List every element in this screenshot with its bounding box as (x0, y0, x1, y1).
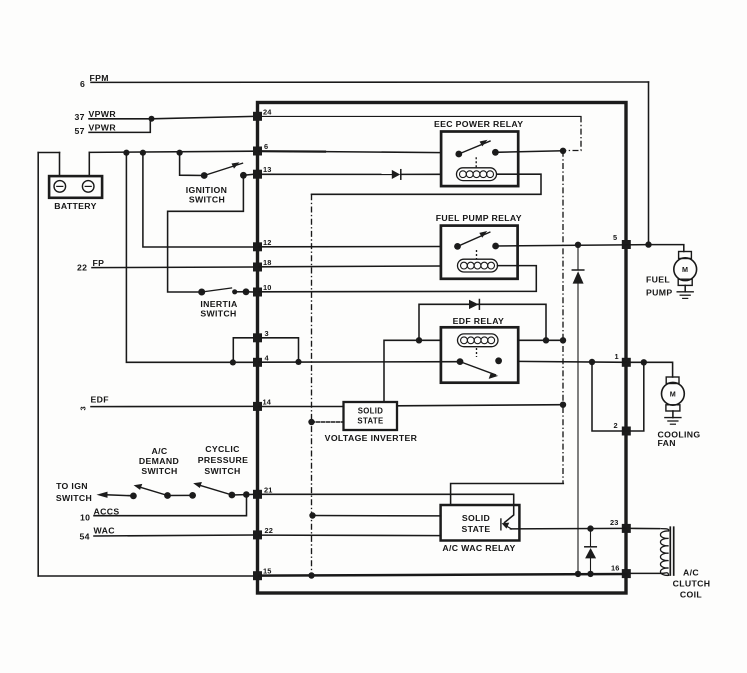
wire ACCS (94, 495, 247, 516)
junction VPWR merge (149, 116, 155, 122)
svg-text:BATTERY: BATTERY (54, 201, 97, 211)
wire WAC relay upper input (313, 515, 441, 517)
inertia switch (198, 288, 249, 319)
junction diode CR3 top on pin 23 wire (587, 525, 593, 531)
solid state voltage inverter U1 (325, 402, 418, 443)
wire pin 2 branch inside and outside (592, 362, 644, 431)
svg-text:23: 23 (610, 518, 619, 527)
wire pin 23 to A/C clutch coil (631, 527, 660, 529)
junction CR3 on ground bus (587, 571, 593, 577)
svg-text:4: 4 (265, 353, 270, 362)
wire EDF coil right to VPWR vertical (518, 339, 563, 341)
svg-text:13: 13 (263, 165, 272, 174)
svg-text:6: 6 (80, 79, 85, 89)
cooling fan motor M2 (658, 377, 701, 448)
wire VPWR to pin 24 (152, 116, 254, 118)
wire pin 21 to WAC relay drop (259, 494, 514, 522)
wire EEC relay output to junction (495, 151, 563, 153)
solid state A/C WAC relay U2 (441, 505, 520, 553)
wire battery positive feed to pin 6 (89, 151, 253, 152)
svg-text:COIL: COIL (680, 590, 702, 600)
junction WAC upper input on ground-return vertical (309, 512, 315, 518)
junction inverter right on VPWR vertical (560, 402, 566, 408)
svg-text:6: 6 (264, 142, 268, 151)
wire diode CR3 branch vertical (590, 529, 592, 547)
junction inverter input on ground-return vertical (308, 419, 314, 425)
junction fuel relay output to diode branch (575, 242, 581, 248)
wire ground bus to pin 15 (38, 575, 253, 577)
ECM main box (258, 103, 627, 594)
pin 16 (622, 569, 631, 578)
wire pin 1 to cooling fan (631, 362, 673, 377)
svg-text:STATE: STATE (357, 417, 383, 426)
ground fuel pump (677, 285, 693, 298)
svg-text:14: 14 (263, 397, 272, 406)
pin 23 (622, 524, 631, 533)
wire fuel pump relay output to pin 5 (496, 245, 649, 246)
pin 18 (253, 263, 262, 272)
svg-text:24: 24 (263, 107, 272, 116)
wire battery top feed left segment (38, 152, 59, 154)
a/c demand switch (130, 446, 179, 499)
wire to ign switch with arrow (106, 495, 133, 496)
svg-text:VOLTAGE INVERTER: VOLTAGE INVERTER (325, 433, 418, 443)
junction diode branch on ground bus (575, 571, 581, 577)
svg-text:FUEL: FUEL (646, 275, 670, 285)
svg-text:M: M (682, 265, 688, 274)
wire inverter right to VPWR vertical (397, 405, 563, 406)
wire pin 3 outside loop to pin 4 (233, 338, 253, 363)
svg-text:INERTIA: INERTIA (200, 299, 238, 309)
svg-text:10: 10 (80, 513, 90, 523)
svg-text:VPWR: VPWR (89, 109, 117, 119)
diode CR2 bypass loop over EDF coil (419, 300, 546, 341)
cyclic pressure switch (189, 444, 248, 499)
wire pin 6 to EEC relay contact (259, 150, 325, 153)
EDF relay (441, 316, 518, 383)
svg-text:FAN: FAN (658, 438, 676, 448)
svg-text:A/C WAC RELAY: A/C WAC RELAY (442, 543, 515, 553)
junction pin 2 branch on pin 1 wire (589, 359, 595, 365)
wire ground bus pin 15 to pin 16 (259, 574, 626, 576)
pin 10 (253, 288, 262, 297)
wire diode to EEC relay coil (401, 173, 441, 175)
wire EDF to pin 14 (91, 405, 253, 407)
pin 21 (253, 490, 262, 499)
junction pin3 loop on pin 4 wire (230, 359, 236, 365)
junction FPM tap (645, 241, 651, 247)
svg-text:FPM: FPM (90, 73, 109, 83)
svg-text:1: 1 (615, 352, 619, 361)
wire EDF coil left to inverter (384, 340, 441, 402)
pin 22 (253, 530, 262, 539)
svg-text:FUEL PUMP RELAY: FUEL PUMP RELAY (436, 213, 522, 223)
svg-text:5: 5 (613, 233, 617, 242)
wire inverter input (312, 421, 344, 423)
svg-text:TO IGN: TO IGN (56, 481, 88, 491)
svg-text:EEC POWER RELAY: EEC POWER RELAY (434, 119, 523, 129)
wire FP to pin 18 (92, 266, 253, 269)
diode CR1 EEC relay coil (392, 170, 401, 180)
junction battery feed to ignition switch branch (177, 150, 183, 156)
wire pin 24 to EEC relay output (VPWR) (262, 115, 581, 117)
svg-text:WAC: WAC (94, 526, 116, 536)
wire pin 5 to fuel pump (649, 245, 684, 252)
wire pin 12 feed vertical (143, 153, 253, 247)
svg-text:16: 16 (611, 563, 620, 572)
svg-text:10: 10 (263, 283, 272, 292)
wire fuel pump relay coil return to pin 10 (259, 266, 536, 292)
svg-text:3: 3 (79, 406, 88, 410)
junction battery feed to pin 4 branch (123, 150, 129, 156)
pin 5 (622, 240, 631, 249)
pin 13 (253, 170, 262, 179)
svg-text:DEMAND: DEMAND (139, 456, 179, 466)
wire battery positive terminal stub (88, 152, 90, 176)
pin 1 (622, 358, 631, 367)
junction battery feed to pin 12 branch (140, 150, 146, 156)
wire diode CR4 down to ground bus (577, 284, 579, 574)
svg-text:54: 54 (80, 532, 90, 542)
svg-text:57: 57 (75, 126, 85, 136)
wire pin 13 to diode CR1 (259, 173, 392, 175)
wire pin 14 to inverter (259, 406, 344, 408)
svg-text:SWITCH: SWITCH (141, 466, 177, 476)
wire between switches (168, 494, 193, 496)
wire FPM horizontal top (91, 81, 649, 83)
svg-text:VPWR: VPWR (89, 123, 117, 133)
svg-text:21: 21 (264, 485, 273, 494)
junction EEC relay output node (560, 148, 566, 154)
fuel pump motor M1 (646, 252, 697, 298)
wire VPWR distribution vertical (dash-dot) (562, 151, 564, 484)
svg-text:SOLID: SOLID (358, 407, 384, 416)
pin 24 (253, 112, 262, 121)
diode CR3 A/C clutch clamp (585, 547, 597, 559)
battery (49, 176, 102, 211)
pin 15 (253, 571, 262, 580)
wire VPWR pin 37 (89, 118, 152, 120)
junction ground-return vertical on ground bus (308, 572, 314, 578)
wire EEC relay coil return (312, 174, 542, 194)
wire ignition switch to pin 13 (243, 174, 253, 175)
wire pin 4 to EDF relay contact (259, 361, 460, 364)
svg-text:A/C: A/C (151, 446, 167, 456)
svg-text:SOLID: SOLID (462, 513, 490, 523)
wire pin 12 to fuel pump relay contact (259, 246, 441, 248)
wire ignition switch drop (180, 153, 205, 176)
svg-text:CYCLIC: CYCLIC (205, 444, 240, 454)
svg-text:ACCS: ACCS (94, 507, 120, 517)
wire fuel relay diode branch vertical (577, 245, 579, 270)
fuel pump relay (436, 213, 522, 279)
wire FPM drop to fuel pump feed (648, 82, 650, 245)
svg-text:18: 18 (263, 258, 272, 267)
svg-text:M: M (670, 389, 676, 398)
svg-text:22: 22 (77, 263, 87, 273)
wire pin 4 feed vertical (126, 153, 253, 363)
svg-text:SWITCH: SWITCH (189, 195, 225, 205)
wire WAC relay output to pin 23 (511, 527, 627, 530)
wire A/C clutch coil to pin 16 (631, 572, 663, 574)
junction ACCS joins pin 21 (243, 491, 250, 498)
wire VPWR vertical into WAC relay top (451, 484, 564, 506)
wire left margin vertical (battery negative) (37, 153, 39, 577)
pin 4 (253, 358, 262, 367)
ground cooling fan (665, 411, 681, 424)
wire ground return vertical (dash-dot) (311, 194, 313, 575)
junction diode loop on coil right wire (543, 337, 549, 343)
svg-text:CLUTCH: CLUTCH (673, 579, 711, 589)
pin 14 (253, 402, 262, 411)
EEC power relay (434, 119, 523, 186)
wire pin 3 inside loop (262, 338, 299, 362)
wire diode CR3 down to ground bus (590, 558, 592, 573)
wire VPWR pin 57 (89, 119, 150, 133)
junction pin 2 outside loop on pin 1 wire (641, 359, 647, 365)
pin 6 (253, 147, 262, 156)
wire battery negative terminal stub (59, 153, 61, 177)
wire ignition switch to inertia switch (168, 175, 244, 292)
A/C clutch coil L1 (660, 527, 710, 599)
svg-text:37: 37 (75, 112, 85, 122)
wire pin 22 to WAC relay lower input (259, 534, 441, 537)
junction pin 3 loop on pin 4 wire inside (295, 359, 301, 365)
svg-text:SWITCH: SWITCH (204, 466, 240, 476)
svg-text:2: 2 (614, 421, 618, 430)
svg-text:3: 3 (265, 329, 269, 338)
junction EDF coil left / diode loop (416, 337, 422, 343)
pin 12 (253, 242, 262, 251)
svg-text:22: 22 (265, 526, 274, 535)
svg-text:A/C: A/C (683, 568, 699, 578)
wire EDF relay output to pin 1 (518, 360, 626, 363)
pin 3 (253, 333, 262, 342)
svg-text:PRESSURE: PRESSURE (198, 455, 249, 465)
diode CR4 on fuel pump branch (572, 270, 584, 284)
wire cyclic switch to pin 21 (232, 493, 253, 496)
svg-text:EDF RELAY: EDF RELAY (453, 316, 505, 326)
wire inertia switch to pin 10 (246, 291, 253, 293)
svg-text:SWITCH: SWITCH (200, 309, 236, 319)
svg-text:12: 12 (263, 238, 272, 247)
junction coil right on VPWR vertical (560, 337, 566, 343)
svg-text:SWITCH: SWITCH (56, 493, 92, 503)
svg-text:FP: FP (93, 258, 105, 268)
svg-text:IGNITION: IGNITION (186, 185, 227, 195)
pin 2 (622, 427, 631, 436)
svg-text:STATE: STATE (462, 524, 491, 534)
wire WAC to pin 22 (94, 535, 253, 536)
ignition switch (186, 162, 247, 204)
wire pin 18 to fuel pump relay coil (259, 265, 441, 268)
svg-text:PUMP: PUMP (646, 288, 673, 298)
svg-text:EDF: EDF (91, 395, 109, 405)
